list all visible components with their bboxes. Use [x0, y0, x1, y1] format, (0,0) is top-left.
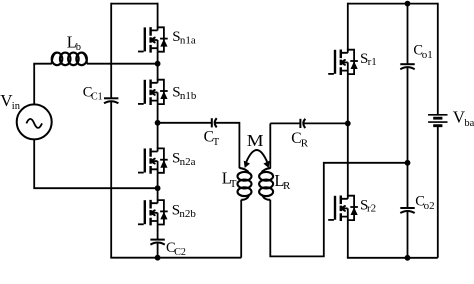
label L_b: [67, 32, 81, 52]
label V_bat: [453, 107, 474, 129]
wire C_C2 lower: [157, 243, 159, 258]
svg-text:n2a: n2a: [180, 156, 196, 168]
wire L_b left lead: [33, 63, 52, 65]
transistor S_n1a: [138, 26, 168, 52]
wire top rail right: [348, 3, 438, 5]
node node mid: [405, 160, 411, 166]
wire S_n2b source: [157, 225, 159, 240]
wire C_o2 lower lead: [407, 211, 409, 258]
capacitor C_R: [300, 119, 305, 128]
label C_o1: [413, 43, 432, 62]
wire C_R left lead: [270, 122, 300, 124]
wire S_r1 source: [347, 74, 349, 123]
wire top bus left: [111, 3, 157, 5]
label L_T: [222, 168, 237, 190]
svg-text:b: b: [76, 42, 81, 53]
label S_n2b: [172, 203, 197, 220]
svg-text:T: T: [230, 178, 237, 190]
transistor S_n2b: [138, 199, 168, 225]
label S_r1: [360, 51, 377, 68]
label S_r2: [360, 198, 376, 215]
svg-text:bat: bat: [464, 118, 474, 129]
transistor S_n2a: [138, 148, 168, 174]
node node4: [155, 255, 161, 261]
wire S_n2a source: [157, 173, 159, 188]
wire bottom rail right: [347, 257, 438, 259]
wire S_n1b drain: [157, 64, 159, 80]
svg-text:r1: r1: [368, 56, 377, 68]
wire C_C1 branch lower: [110, 101, 112, 258]
wire V_in bottom lead: [34, 139, 157, 188]
capacitor C_o1: [400, 64, 414, 69]
inductor L_T: [238, 168, 252, 200]
wire S_n1a drain: [157, 3, 159, 28]
svg-text:C2: C2: [174, 247, 186, 258]
capacitor C_T: [212, 118, 217, 127]
transistor S_n1b: [138, 79, 168, 105]
svg-text:R: R: [301, 137, 309, 149]
label M: [247, 131, 264, 150]
wire V_bat lower lead: [437, 126, 439, 258]
svg-text:n1a: n1a: [180, 34, 196, 46]
wire S_n1b source: [157, 104, 159, 123]
transistor S_r2: [328, 195, 358, 221]
wire C_R right lead: [304, 122, 348, 124]
wire S_r2 drain: [347, 123, 349, 195]
wire C_T left lead: [158, 122, 212, 124]
label L_R: [274, 171, 291, 192]
wire L_R top lead: [269, 123, 271, 168]
label C_C2: [166, 240, 186, 258]
wire S_r2 source: [347, 220, 349, 258]
label S_n2a: [172, 151, 196, 168]
svg-text:n1b: n1b: [180, 90, 197, 102]
wire C_o1 upper lead: [407, 4, 409, 65]
node node bottom: [405, 255, 411, 261]
wire V_in top lead: [33, 64, 35, 105]
svg-text:r2: r2: [367, 203, 376, 215]
wire L_T bottom lead: [240, 200, 242, 258]
label C_T: [204, 129, 220, 148]
battery V_bat: [428, 115, 447, 126]
svg-text:T: T: [213, 137, 220, 148]
svg-text:R: R: [283, 180, 291, 192]
label S_n1a: [172, 29, 196, 46]
node node1: [155, 61, 161, 67]
svg-text:C1: C1: [91, 92, 103, 103]
svg-text:in: in: [12, 101, 21, 112]
inductor L_b: [52, 53, 87, 66]
transistor S_r1: [328, 49, 358, 75]
inductor L_R: [259, 168, 273, 200]
label C_C1: [83, 85, 103, 103]
node node CR: [345, 121, 351, 127]
wire S_n1a source: [157, 52, 159, 64]
label V_in: [0, 91, 21, 112]
wire C_o2 upper lead: [407, 163, 409, 208]
label S_n1b: [172, 84, 197, 101]
label C_o2: [415, 193, 434, 212]
node node top: [405, 1, 411, 7]
wire C_C1 branch upper: [110, 3, 112, 99]
wire C_T right lead: [215, 123, 239, 168]
wire C_o1 lower lead: [407, 67, 409, 163]
svg-text:M: M: [247, 131, 264, 150]
capacitor C_C2: [150, 240, 164, 245]
node node3: [155, 185, 161, 191]
label C_R: [291, 130, 309, 150]
wire bottom rail left: [110, 257, 241, 259]
wire L_b right lead: [87, 63, 158, 65]
wire S_n2b drain: [157, 188, 159, 200]
node node2: [155, 120, 161, 126]
mutual coupling M arrow: [244, 150, 270, 168]
capacitor C_C1: [104, 98, 118, 103]
capacitor C_o2: [400, 208, 414, 213]
source V_in: [17, 104, 52, 139]
svg-text:o2: o2: [424, 200, 435, 212]
wire S_r1 drain: [347, 3, 349, 50]
svg-text:o1: o1: [422, 49, 433, 61]
svg-text:n2b: n2b: [179, 208, 196, 220]
wire L_R bottom lead: [270, 163, 407, 257]
wire V_bat upper lead: [437, 3, 439, 115]
wire S_n2a drain: [157, 123, 159, 149]
